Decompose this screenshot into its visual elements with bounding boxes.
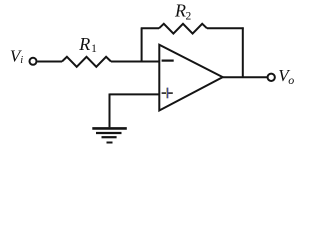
svg-text:R1: R1: [78, 34, 97, 55]
wire: non-inverting input to ground stem: [110, 93, 160, 95]
wire: R1 to op-amp inverting input: [111, 61, 160, 63]
op-amp non-inverting input plus sign: [162, 92, 173, 94]
svg-text:R2: R2: [174, 1, 192, 23]
op-amp U1: [159, 45, 222, 111]
wire: feedback top left segment: [141, 27, 159, 29]
resistor R1: [62, 57, 111, 67]
input terminal circle (Vi): [30, 58, 37, 65]
wire: ground stem vertical: [109, 94, 111, 128]
ground symbol: [92, 128, 127, 142]
wire: input terminal to R1: [37, 61, 62, 63]
output terminal circle (Vo): [268, 74, 275, 81]
svg-text:Vi: Vi: [10, 46, 23, 66]
wire: feedback right vertical down to output node: [242, 27, 244, 77]
svg-text:Vo: Vo: [278, 66, 294, 87]
resistor R2: [159, 24, 207, 34]
op-amp inverting input minus sign: [162, 59, 174, 61]
wire: feedback junction vertical at node A: [141, 28, 143, 61]
wire: op-amp output to Vo terminal: [223, 76, 268, 78]
wire: feedback top right segment: [207, 27, 244, 29]
